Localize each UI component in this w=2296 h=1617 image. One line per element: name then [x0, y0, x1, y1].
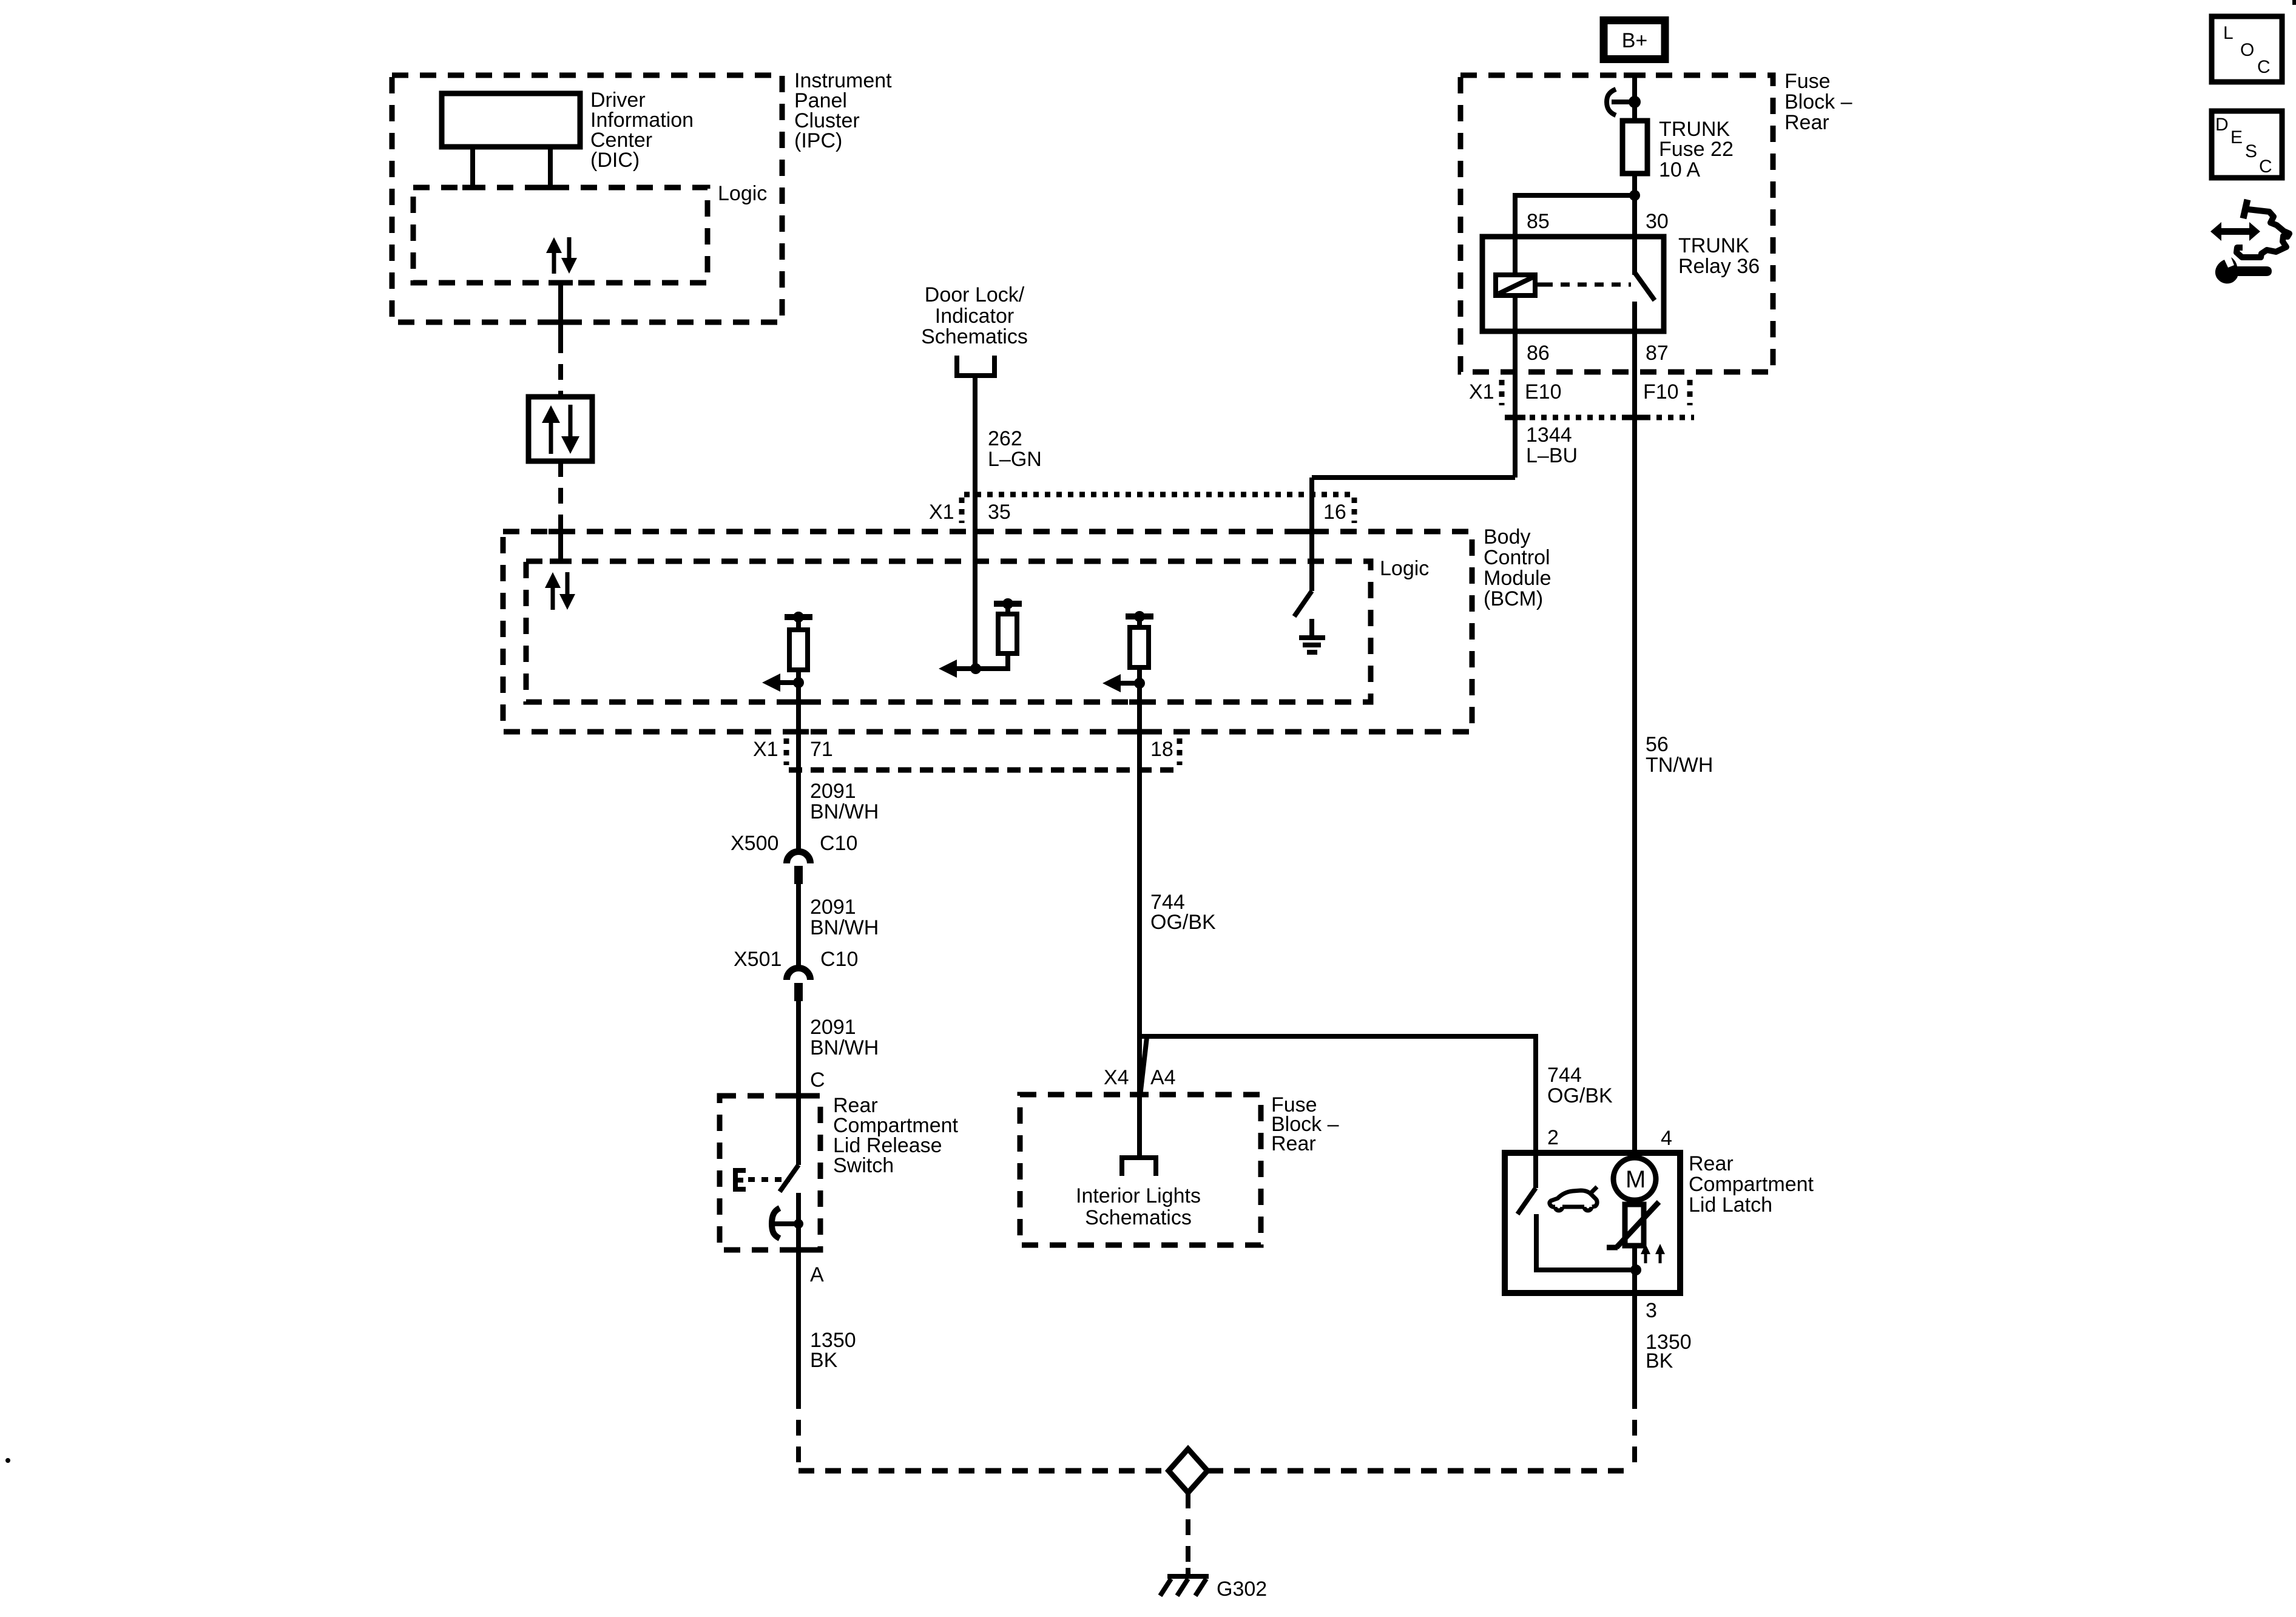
- svg-text:Compartment: Compartment: [1689, 1173, 1814, 1196]
- svg-text:Logic: Logic: [1380, 557, 1429, 580]
- svg-text:3: 3: [1646, 1299, 1657, 1322]
- svg-text:71: 71: [810, 738, 833, 761]
- svg-text:35: 35: [988, 501, 1011, 524]
- svg-text:85: 85: [1527, 210, 1550, 233]
- svg-text:Fuse 22: Fuse 22: [1659, 138, 1734, 161]
- svg-text:(BCM): (BCM): [1484, 587, 1543, 610]
- svg-text:Relay 36: Relay 36: [1678, 255, 1760, 278]
- svg-text:D: D: [2215, 115, 2229, 135]
- svg-text:87: 87: [1646, 342, 1669, 365]
- svg-text:F10: F10: [1643, 380, 1679, 403]
- svg-text:10 A: 10 A: [1659, 158, 1700, 181]
- svg-text:E10: E10: [1525, 380, 1562, 403]
- svg-text:X1: X1: [753, 738, 778, 761]
- svg-text:Logic: Logic: [718, 182, 767, 205]
- svg-text:Block –: Block –: [1784, 90, 1852, 113]
- svg-text:X1: X1: [1469, 380, 1494, 403]
- svg-text:BN/WH: BN/WH: [810, 1036, 879, 1059]
- svg-text:L: L: [2223, 23, 2234, 43]
- svg-text:56: 56: [1646, 733, 1669, 756]
- svg-text:X4: X4: [1104, 1066, 1129, 1089]
- svg-text:Switch: Switch: [833, 1154, 894, 1177]
- svg-text:G302: G302: [1217, 1578, 1267, 1601]
- svg-text:30: 30: [1646, 210, 1669, 233]
- svg-text:A: A: [810, 1263, 824, 1286]
- svg-text:Module: Module: [1484, 567, 1551, 590]
- svg-text:(DIC): (DIC): [590, 149, 640, 172]
- svg-text:M: M: [1626, 1166, 1646, 1193]
- svg-text:X500: X500: [731, 832, 778, 855]
- svg-text:B+: B+: [1622, 29, 1648, 52]
- svg-text:C: C: [2259, 157, 2272, 177]
- svg-text:Door Lock/: Door Lock/: [925, 283, 1025, 306]
- svg-text:Body: Body: [1484, 525, 1531, 549]
- svg-text:16: 16: [1323, 501, 1346, 524]
- svg-text:C: C: [2257, 57, 2271, 77]
- svg-text:BN/WH: BN/WH: [810, 916, 879, 939]
- svg-text:BK: BK: [1646, 1349, 1673, 1372]
- svg-text:OG/BK: OG/BK: [1150, 911, 1216, 934]
- svg-text:Lid Latch: Lid Latch: [1689, 1193, 1772, 1217]
- svg-text:262: 262: [988, 427, 1022, 450]
- svg-text:(IPC): (IPC): [794, 129, 842, 152]
- svg-text:Schematics: Schematics: [1085, 1206, 1192, 1229]
- svg-text:BK: BK: [810, 1349, 838, 1372]
- svg-text:TN/WH: TN/WH: [1646, 754, 1713, 777]
- svg-text:744: 744: [1547, 1064, 1582, 1087]
- svg-text:S: S: [2245, 141, 2257, 161]
- svg-text:E: E: [2230, 127, 2243, 147]
- svg-text:Rear: Rear: [1784, 111, 1829, 134]
- svg-text:X501: X501: [734, 948, 782, 971]
- svg-text:C: C: [810, 1068, 825, 1092]
- svg-text:1344: 1344: [1526, 424, 1572, 447]
- svg-text:X1: X1: [929, 501, 954, 524]
- svg-text:Rear: Rear: [1689, 1152, 1734, 1175]
- svg-text:Indicator: Indicator: [935, 305, 1014, 328]
- svg-text:18: 18: [1150, 738, 1173, 761]
- svg-text:86: 86: [1527, 342, 1550, 365]
- svg-text:Interior Lights: Interior Lights: [1076, 1184, 1201, 1207]
- svg-text:2091: 2091: [810, 1016, 856, 1039]
- svg-text:4: 4: [1661, 1127, 1672, 1150]
- svg-text:OG/BK: OG/BK: [1547, 1084, 1613, 1107]
- svg-text:Fuse: Fuse: [1784, 70, 1831, 93]
- svg-text:BN/WH: BN/WH: [810, 800, 879, 823]
- svg-text:2091: 2091: [810, 780, 856, 803]
- svg-text:Rear: Rear: [1271, 1132, 1316, 1155]
- svg-text:Control: Control: [1484, 546, 1550, 569]
- svg-text:A4: A4: [1150, 1066, 1176, 1089]
- svg-text:L–GN: L–GN: [988, 448, 1042, 471]
- svg-text:C10: C10: [820, 948, 858, 971]
- svg-text:2091: 2091: [810, 896, 856, 919]
- svg-text:O: O: [2240, 40, 2254, 60]
- svg-text:C10: C10: [820, 832, 857, 855]
- svg-text:2: 2: [1547, 1126, 1559, 1149]
- svg-text:TRUNK: TRUNK: [1678, 234, 1749, 257]
- svg-text:Schematics: Schematics: [921, 325, 1028, 348]
- svg-text:L–BU: L–BU: [1526, 444, 1578, 467]
